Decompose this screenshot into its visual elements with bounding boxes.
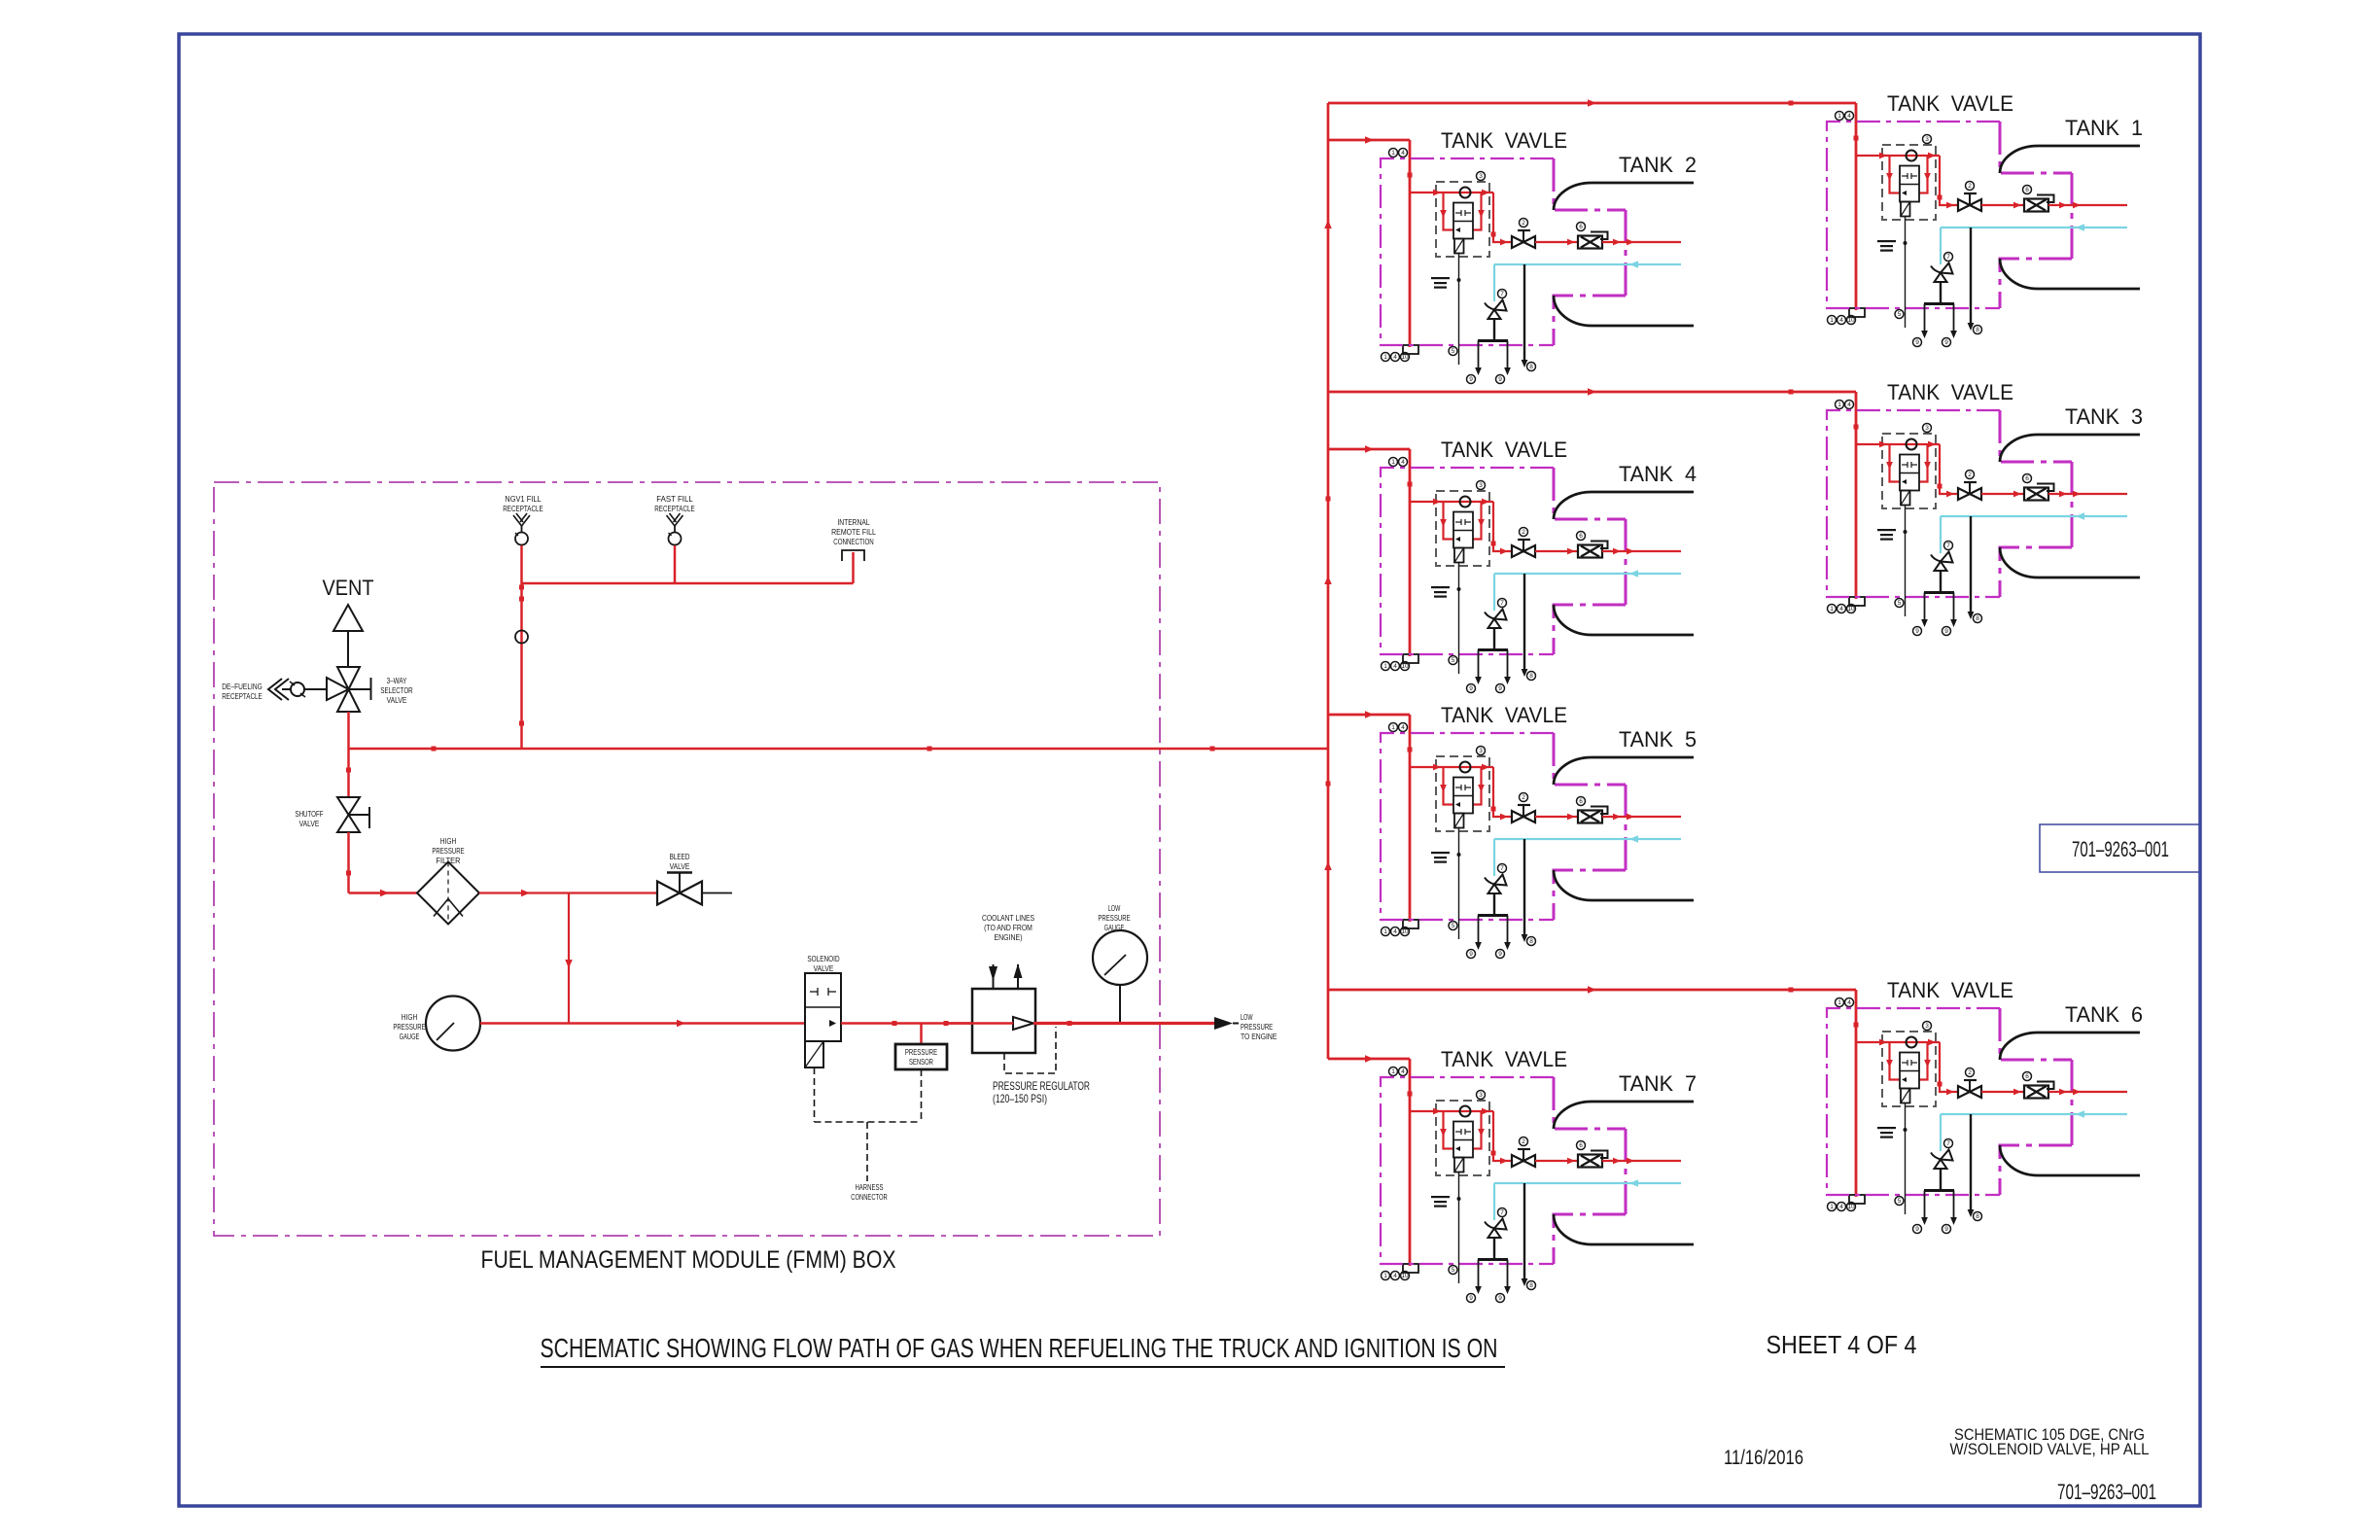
fast fill receptacle symbol <box>667 513 683 526</box>
solenoid valve (FMM) <box>805 973 841 1041</box>
svg-text:TANK 5: TANK 5 <box>1619 727 1697 752</box>
red line filter to bleed valve <box>479 892 657 893</box>
svg-text:CONNECTION: CONNECTION <box>833 537 874 546</box>
tank valve assembly TANK 2 <box>1381 128 1694 384</box>
internal remote fill connection symbol <box>842 550 864 561</box>
branch to shutoff valve (red) <box>347 749 350 797</box>
svg-text:701–9263–001: 701–9263–001 <box>2057 1480 2156 1504</box>
tank valve assembly TANK 7 <box>1381 1047 1694 1303</box>
3-way selector valve <box>337 667 360 689</box>
svg-text:RECEPTACLE: RECEPTACLE <box>503 504 543 513</box>
NGV1 drop line (red) <box>520 545 523 749</box>
svg-text:TANK 4: TANK 4 <box>1619 462 1697 486</box>
svg-text:GAUGE: GAUGE <box>1104 923 1125 932</box>
bleed valve <box>657 882 680 905</box>
svg-text:VALVE: VALVE <box>814 963 834 973</box>
svg-text:VALVE: VALVE <box>670 861 690 871</box>
svg-text:W/SOLENOID VALVE, HP ALL: W/SOLENOID VALVE, HP ALL <box>1950 1440 2150 1458</box>
svg-text:(120–150 PSI): (120–150 PSI) <box>993 1092 1047 1105</box>
pressure sensor <box>895 1044 947 1069</box>
svg-text:TANK 3: TANK 3 <box>2065 404 2143 429</box>
main riser (red) <box>1327 103 1330 1059</box>
fill header (red) <box>522 582 854 585</box>
drop to gauge line (red) <box>568 893 570 1024</box>
svg-text:HIGH: HIGH <box>440 836 457 846</box>
svg-text:11/16/2016: 11/16/2016 <box>1724 1447 1803 1469</box>
red line solenoid to regulator <box>841 1022 972 1025</box>
pressure sensor tee (red) <box>920 1024 923 1045</box>
pressure sensor harness lead (dashed) <box>921 1069 923 1122</box>
svg-text:CONNECTOR: CONNECTOR <box>851 1192 887 1202</box>
svg-text:REMOTE FILL: REMOTE FILL <box>831 527 876 537</box>
regulated outlet (red thick) <box>1033 1022 1214 1025</box>
feed line tank1 (red) <box>1328 102 1856 105</box>
red line into regulator <box>946 1022 1013 1025</box>
low pressure gauge <box>1093 930 1147 985</box>
svg-text:ENGINE): ENGINE) <box>994 932 1022 942</box>
svg-text:(TO AND FROM: (TO AND FROM <box>984 923 1032 932</box>
coolant line in <box>993 964 995 989</box>
svg-text:HIGH: HIGH <box>402 1012 418 1022</box>
svg-text:LOW: LOW <box>1241 1012 1253 1022</box>
de-fueling receptacle symbol <box>268 679 282 700</box>
svg-text:FILTER: FILTER <box>437 856 461 865</box>
svg-text:VALVE: VALVE <box>387 695 407 705</box>
feed line tank3 (red) <box>1328 391 1856 394</box>
svg-text:701–9263–001: 701–9263–001 <box>2072 837 2169 861</box>
svg-text:SCHEMATIC SHOWING FLOW PATH OF: SCHEMATIC SHOWING FLOW PATH OF GAS WHEN … <box>541 1333 1498 1363</box>
solenoid actuator (FMM) <box>805 1041 823 1067</box>
svg-text:COOLANT LINES: COOLANT LINES <box>982 913 1034 923</box>
svg-text:DE–FUELING: DE–FUELING <box>222 682 262 691</box>
pressure regulator <box>972 989 1035 1053</box>
red line shutoff to filter <box>347 832 350 893</box>
svg-text:TANK 1: TANK 1 <box>2065 116 2143 140</box>
tank valve assembly TANK 1 <box>1827 91 2140 347</box>
svg-text:GAUGE: GAUGE <box>400 1032 420 1041</box>
svg-text:INTERNAL: INTERNAL <box>837 517 869 527</box>
FMM box boundary (dash-dot) <box>214 482 1160 1236</box>
tank valve assembly TANK 5 <box>1381 703 1694 959</box>
svg-text:SHUTOFF: SHUTOFF <box>295 809 323 819</box>
svg-text:RECEPTACLE: RECEPTACLE <box>222 691 262 701</box>
svg-text:VENT: VENT <box>323 576 374 600</box>
NGV1 second check valve <box>515 631 528 644</box>
svg-text:SHEET 4 OF 4: SHEET 4 OF 4 <box>1767 1330 1917 1359</box>
svg-text:3–WAY: 3–WAY <box>387 676 407 685</box>
svg-text:SELECTOR: SELECTOR <box>380 685 412 695</box>
fast fill drop line (red) <box>674 545 677 583</box>
feed line tank4 (red) <box>1328 448 1410 451</box>
harness junction (dashed) <box>815 1121 922 1123</box>
svg-text:PRESSURE: PRESSURE <box>1241 1022 1273 1032</box>
shutoff valve <box>337 797 360 815</box>
feed line tank5 (red) <box>1328 714 1410 717</box>
high pressure gauge <box>426 997 480 1051</box>
red line 3-way valve to main header <box>347 712 350 749</box>
svg-text:SOLENOID: SOLENOID <box>807 954 839 963</box>
feed line tank2 (red) <box>1328 139 1410 142</box>
drawing number box (mid right) <box>2040 824 2200 872</box>
svg-text:PRESSURE: PRESSURE <box>393 1022 425 1032</box>
svg-text:PRESSURE: PRESSURE <box>905 1047 937 1057</box>
main high pressure header (red) <box>349 748 1329 751</box>
feed line tank6 (red) <box>1328 989 1856 992</box>
gauge line (red) <box>480 1022 805 1025</box>
regulator pilot line (dashed) <box>1004 1027 1056 1073</box>
tank valve assembly TANK 4 <box>1381 437 1694 693</box>
svg-text:TANK 7: TANK 7 <box>1619 1071 1697 1096</box>
svg-text:TO ENGINE: TO ENGINE <box>1241 1032 1277 1041</box>
svg-text:RECEPTACLE: RECEPTACLE <box>654 504 695 513</box>
svg-text:HARNESS: HARNESS <box>855 1182 883 1192</box>
tank valve assembly TANK 3 <box>1827 380 2140 636</box>
svg-text:PRESSURE: PRESSURE <box>1098 913 1130 923</box>
svg-text:FAST FILL: FAST FILL <box>656 494 693 504</box>
svg-text:LOW: LOW <box>1108 903 1121 913</box>
high pressure filter <box>417 862 479 925</box>
to-engine arrow <box>1214 1017 1233 1030</box>
sheet title underline <box>541 1366 1505 1368</box>
NGV1 fill receptacle symbol <box>513 513 530 526</box>
wire vent to 3-way valve <box>347 631 349 667</box>
svg-text:TANK 2: TANK 2 <box>1619 153 1697 177</box>
low pressure gauge stem <box>1119 985 1121 1024</box>
solenoid harness lead (dashed) <box>814 1067 816 1122</box>
coolant line out <box>1017 964 1019 989</box>
svg-text:PRESSURE REGULATOR: PRESSURE REGULATOR <box>993 1079 1090 1093</box>
tank valve assembly TANK 6 <box>1827 978 2140 1234</box>
svg-text:TANK 6: TANK 6 <box>2065 1002 2143 1027</box>
svg-text:VALVE: VALVE <box>299 819 320 828</box>
svg-text:SENSOR: SENSOR <box>909 1057 933 1067</box>
svg-text:NGV1 FILL: NGV1 FILL <box>505 494 542 504</box>
feed line tank7 (red) <box>1328 1058 1410 1061</box>
svg-text:FUEL MANAGEMENT MODULE (FMM) B: FUEL MANAGEMENT MODULE (FMM) BOX <box>481 1246 896 1274</box>
internal remote fill drop (red) <box>852 552 855 583</box>
vent outlet triangle <box>333 605 363 631</box>
svg-text:BLEED: BLEED <box>670 852 690 861</box>
svg-text:PRESSURE: PRESSURE <box>432 846 464 856</box>
